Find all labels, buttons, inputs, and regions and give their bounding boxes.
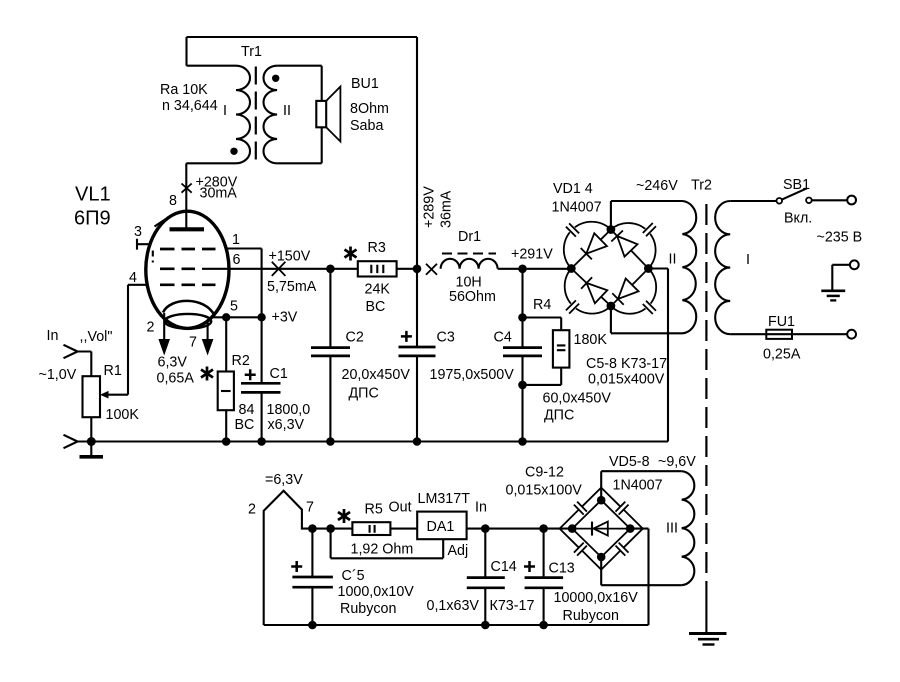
svg-text:BU1: BU1 — [351, 76, 379, 92]
svg-text:In: In — [475, 500, 487, 516]
svg-text:n 34,644: n 34,644 — [162, 98, 218, 114]
svg-text:10000,0x16V: 10000,0x16V — [554, 590, 639, 606]
svg-text:100K: 100K — [106, 407, 140, 423]
svg-text:Out: Out — [389, 500, 412, 516]
svg-text:Ra 10K: Ra 10K — [160, 82, 208, 98]
svg-text:56Ohm: 56Ohm — [449, 289, 496, 305]
svg-text:LM317T: LM317T — [418, 491, 471, 507]
svg-text:C13: C13 — [549, 561, 575, 577]
svg-text:36mA: 36mA — [439, 190, 455, 228]
svg-text:In: In — [47, 328, 59, 344]
svg-text:1N4007: 1N4007 — [613, 478, 663, 494]
svg-text:ДПС: ДПС — [544, 408, 574, 424]
svg-text:I: I — [223, 103, 227, 119]
svg-text:R5: R5 — [365, 502, 383, 518]
svg-text:0,015x400V: 0,015x400V — [588, 372, 665, 388]
svg-text:VD1 4: VD1 4 — [553, 181, 593, 197]
svg-text:Tr2: Tr2 — [691, 178, 712, 194]
svg-text:1,92 Ohm: 1,92 Ohm — [351, 542, 414, 558]
svg-text:Tr1: Tr1 — [241, 44, 262, 60]
svg-text:7: 7 — [306, 500, 314, 516]
svg-text:VL1: VL1 — [75, 184, 111, 206]
svg-text:C14: C14 — [491, 559, 517, 575]
svg-text:Rubycon: Rubycon — [340, 601, 396, 617]
svg-text:Вкл.: Вкл. — [784, 211, 812, 227]
svg-text:1000,0x10V: 1000,0x10V — [338, 584, 415, 600]
svg-text:C9-12: C9-12 — [525, 465, 564, 481]
svg-text:VD5-8: VD5-8 — [609, 454, 650, 470]
svg-text:0,015x100V: 0,015x100V — [506, 483, 583, 499]
svg-text:6П9: 6П9 — [74, 208, 111, 230]
svg-text:2: 2 — [147, 320, 155, 336]
svg-text:0,1x63V: 0,1x63V — [427, 598, 480, 614]
svg-text:C3: C3 — [437, 330, 455, 346]
svg-text:60,0x450V: 60,0x450V — [543, 391, 612, 407]
svg-text:~1,0V: ~1,0V — [39, 367, 77, 383]
svg-text:0,65A: 0,65A — [157, 371, 195, 387]
svg-text:Saba: Saba — [350, 118, 383, 134]
svg-text:=6,3V: =6,3V — [265, 472, 303, 488]
svg-text:II: II — [669, 252, 677, 268]
svg-text:6,3V: 6,3V — [158, 355, 188, 371]
svg-text:Adj: Adj — [448, 543, 469, 559]
svg-text:6: 6 — [233, 252, 241, 268]
svg-text:C2: C2 — [346, 330, 364, 346]
svg-text:Rubycon: Rubycon — [563, 608, 619, 624]
svg-text:+291V: +291V — [511, 247, 553, 263]
svg-text:7: 7 — [189, 335, 197, 351]
svg-text:C´5: C´5 — [342, 568, 365, 584]
svg-text:C1: C1 — [270, 366, 288, 382]
svg-text:5: 5 — [230, 299, 238, 315]
svg-text:~235 В: ~235 В — [817, 230, 863, 246]
svg-text:0,25A: 0,25A — [763, 347, 801, 363]
svg-text:SB1: SB1 — [783, 177, 810, 193]
svg-text:4: 4 — [129, 270, 137, 286]
svg-text:2: 2 — [248, 502, 256, 518]
svg-text:DA1: DA1 — [427, 519, 455, 535]
svg-text:24K: 24K — [365, 282, 391, 298]
svg-text:5,75mA: 5,75mA — [267, 279, 317, 295]
svg-text:~246V: ~246V — [636, 178, 678, 194]
svg-text:180K: 180K — [574, 332, 608, 348]
svg-text:C5-8 K73-17: C5-8 K73-17 — [586, 356, 667, 372]
svg-text:BC: BC — [235, 417, 255, 433]
svg-text:,,Vol": ,,Vol" — [80, 329, 113, 345]
svg-text:1N4007: 1N4007 — [552, 200, 602, 216]
svg-text:1975,0x500V: 1975,0x500V — [430, 367, 515, 383]
svg-text:+150V: +150V — [269, 249, 311, 265]
svg-text:8: 8 — [169, 193, 177, 209]
svg-text:ДПС: ДПС — [349, 386, 379, 402]
svg-text:I: I — [746, 252, 750, 268]
svg-text:84: 84 — [239, 402, 255, 418]
svg-text:R1: R1 — [104, 363, 122, 379]
svg-text:x6,3V: x6,3V — [268, 417, 305, 433]
svg-text:20,0x450V: 20,0x450V — [342, 367, 411, 383]
svg-text:C4: C4 — [494, 330, 512, 346]
svg-text:~9,6V: ~9,6V — [658, 454, 696, 470]
svg-text:К73-17: К73-17 — [490, 598, 535, 614]
svg-text:II: II — [283, 103, 291, 119]
svg-text:Dr1: Dr1 — [458, 229, 481, 245]
svg-text:R4: R4 — [533, 297, 551, 313]
svg-text:1: 1 — [232, 232, 240, 248]
svg-text:R3: R3 — [368, 240, 386, 256]
svg-text:30mA: 30mA — [200, 186, 238, 202]
svg-text:+3V: +3V — [272, 310, 298, 326]
svg-text:3: 3 — [134, 224, 142, 240]
svg-text:R2: R2 — [232, 353, 250, 369]
svg-text:III: III — [666, 521, 678, 537]
svg-text:8Ohm: 8Ohm — [350, 101, 389, 117]
svg-text:+289V: +289V — [422, 186, 438, 228]
svg-text:FU1: FU1 — [768, 314, 795, 330]
svg-text:BC: BC — [366, 299, 386, 315]
svg-text:1800,0: 1800,0 — [267, 402, 311, 418]
